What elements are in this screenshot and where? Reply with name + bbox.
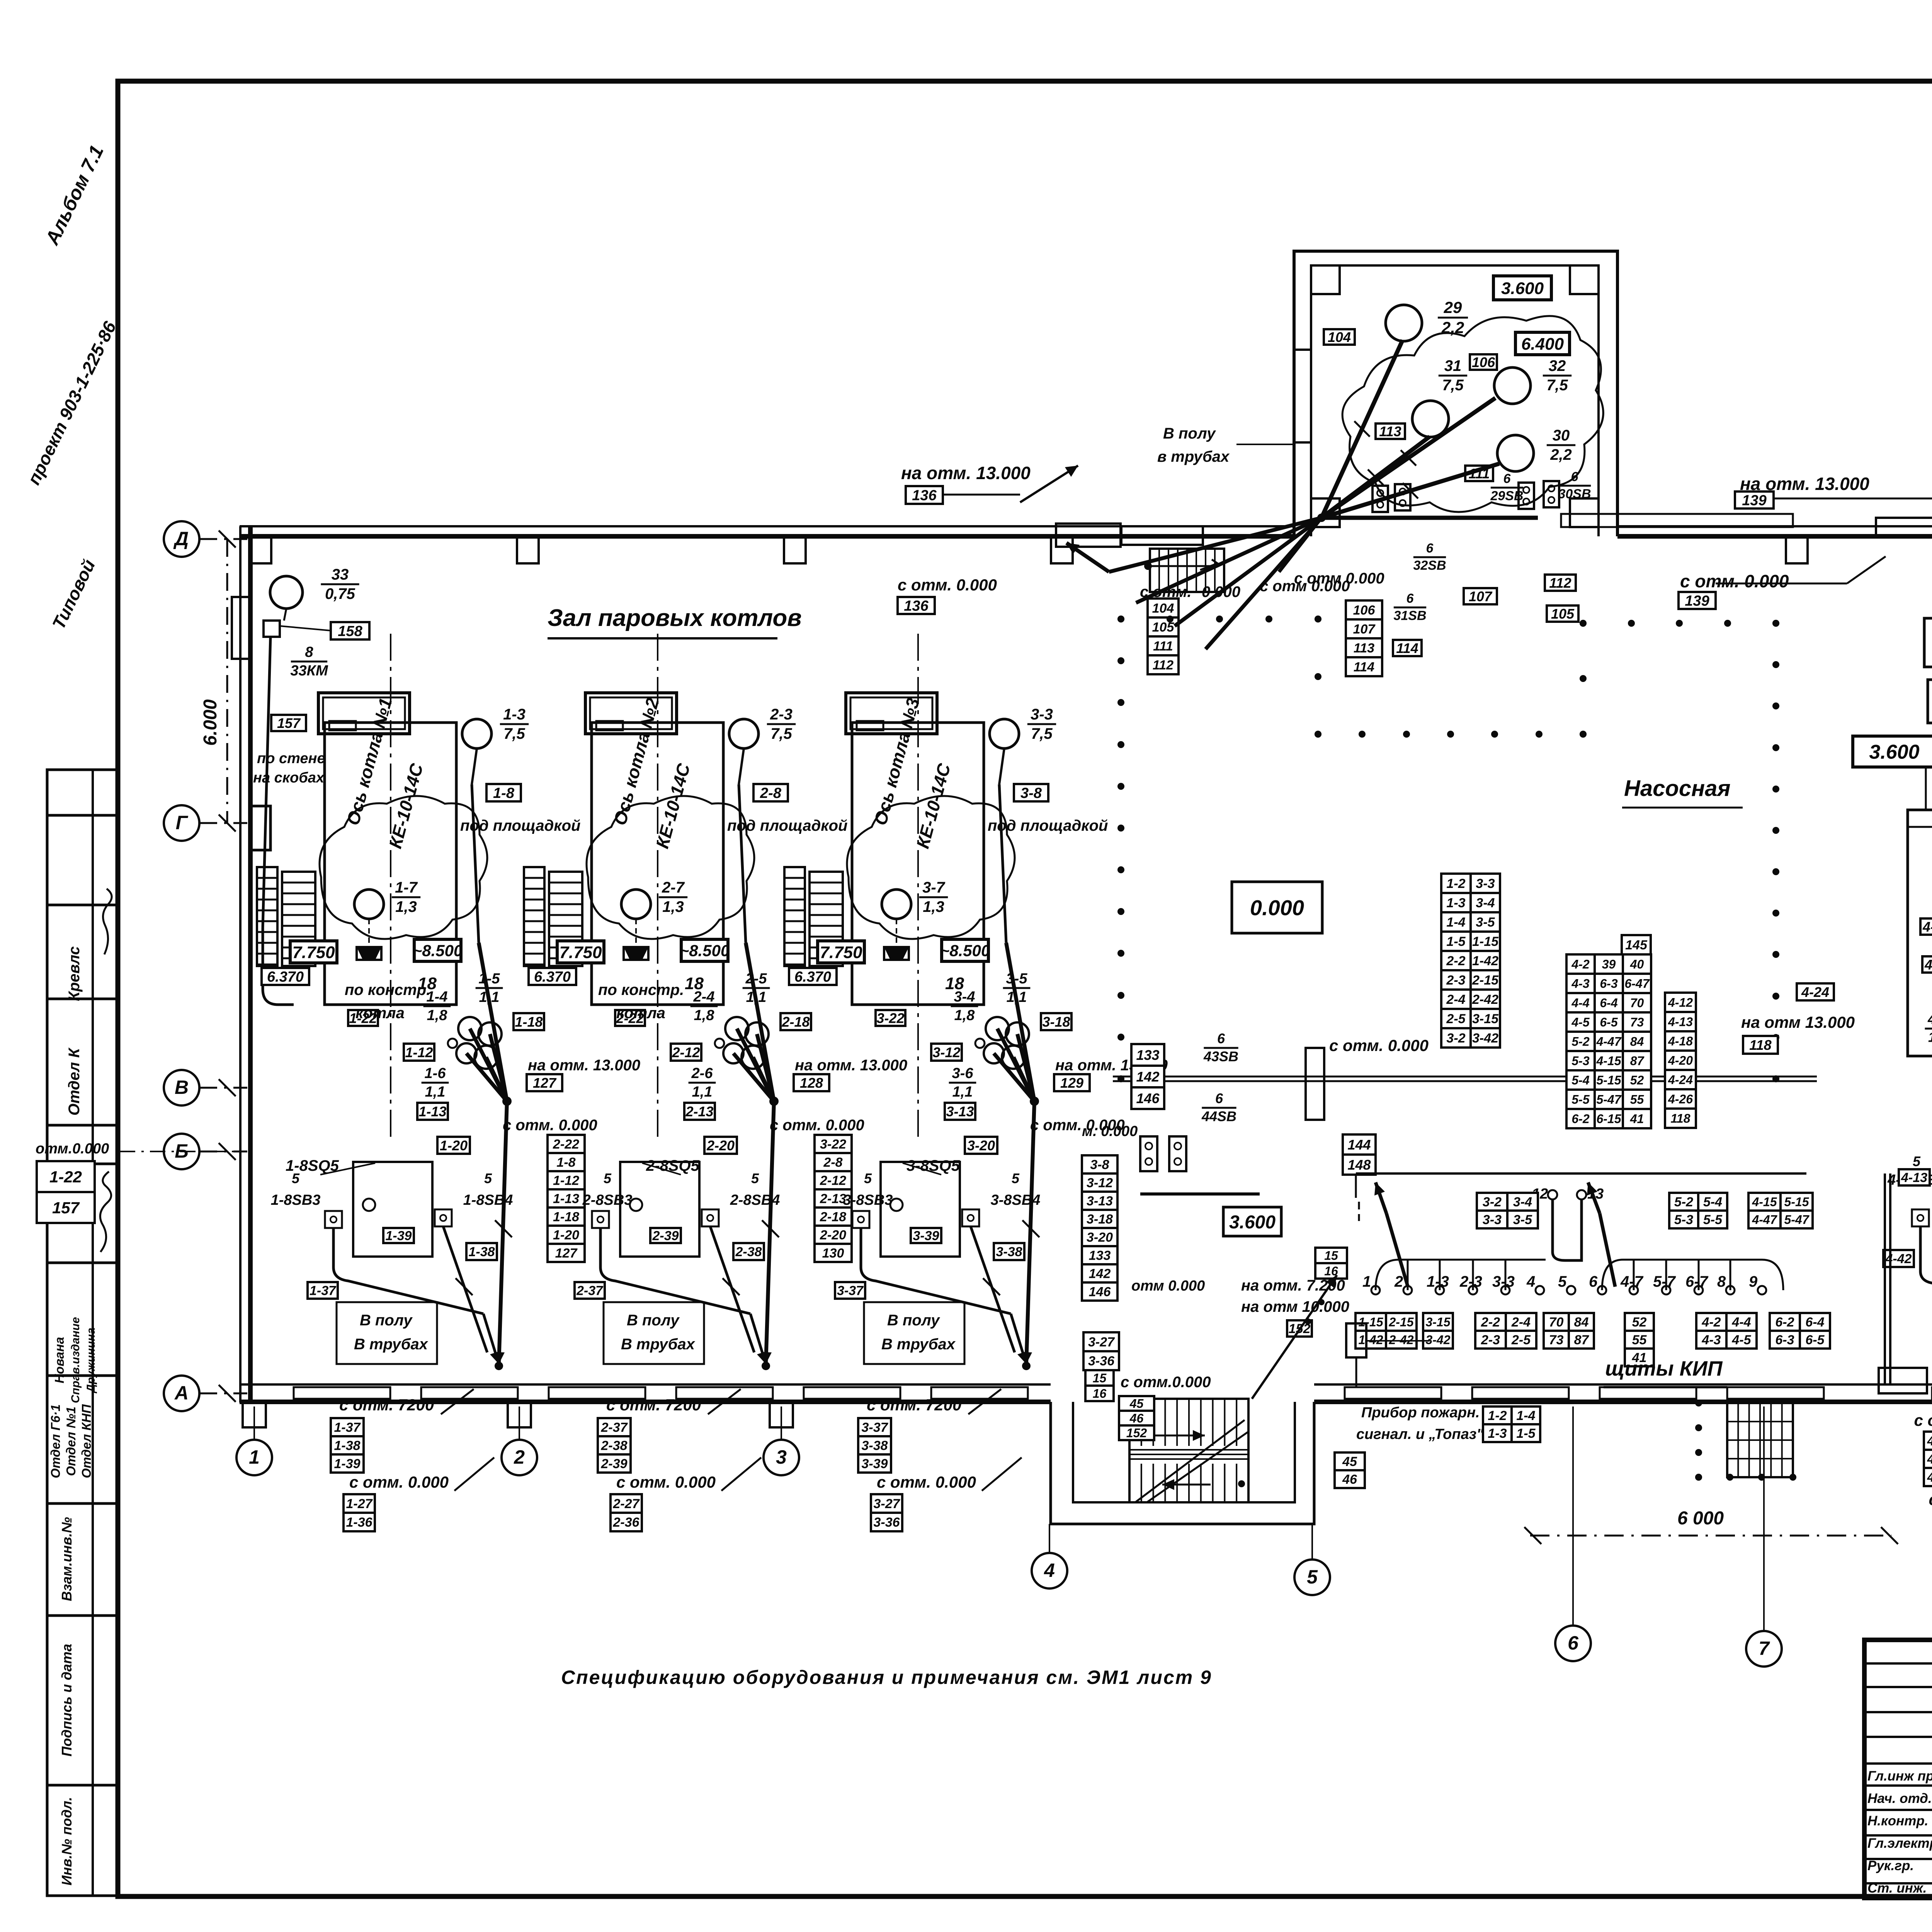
svg-text:107: 107 (1353, 622, 1376, 637)
svg-text:3-22: 3-22 (876, 1010, 904, 1026)
svg-text:5: 5 (1558, 1273, 1567, 1290)
svg-text:45: 45 (1129, 1397, 1144, 1411)
svg-text:3-13: 3-13 (1087, 1194, 1113, 1209)
svg-text:9: 9 (1749, 1273, 1758, 1290)
svg-text:3-7: 3-7 (922, 879, 946, 896)
svg-text:43SВ: 43SВ (1203, 1048, 1238, 1064)
svg-text:Д: Д (173, 528, 189, 549)
svg-text:16: 16 (1093, 1387, 1107, 1401)
svg-text:4-4: 4-4 (1927, 1011, 1932, 1027)
svg-text:с отм. 0.000: с отм. 0.000 (898, 576, 997, 594)
svg-text:В трубах: В трубах (354, 1336, 429, 1353)
svg-text:1,3: 1,3 (395, 898, 417, 915)
svg-text:1,1: 1,1 (952, 1084, 973, 1100)
svg-text:6-2: 6-2 (1775, 1315, 1794, 1330)
svg-text:1-12: 1-12 (405, 1044, 433, 1060)
svg-text:29SВ: 29SВ (1490, 489, 1523, 503)
svg-text:5-5: 5-5 (1571, 1093, 1590, 1107)
svg-text:6-4: 6-4 (1600, 996, 1617, 1010)
svg-text:2-2: 2-2 (1446, 954, 1465, 968)
svg-text:4-4: 4-4 (1731, 1315, 1751, 1330)
svg-text:м. 0.000: м. 0.000 (1082, 1123, 1138, 1139)
svg-text:4-15: 4-15 (1752, 1195, 1777, 1209)
svg-text:по констр.: по констр. (598, 981, 684, 998)
svg-text:7.750: 7.750 (292, 943, 335, 962)
svg-text:1,1: 1,1 (746, 989, 767, 1005)
svg-text:с отм. 7.200: с отм. 7.200 (1914, 1411, 1932, 1429)
svg-text:6: 6 (1215, 1090, 1223, 1106)
svg-text:136: 136 (912, 488, 937, 504)
svg-text:с отм. 0.000: с отм. 0.000 (770, 1117, 864, 1134)
svg-text:6: 6 (1503, 471, 1511, 486)
svg-text:32: 32 (1549, 357, 1566, 374)
svg-text:3-6: 3-6 (952, 1065, 974, 1082)
svg-text:2-22: 2-22 (553, 1137, 579, 1152)
svg-text:4: 4 (1526, 1273, 1535, 1290)
svg-text:33: 33 (332, 566, 349, 583)
svg-text:130: 130 (822, 1246, 844, 1261)
svg-text:52: 52 (1630, 1073, 1644, 1087)
svg-text:4-12: 4-12 (1668, 996, 1693, 1010)
svg-text:1,8: 1,8 (694, 1007, 715, 1024)
svg-text:128: 128 (800, 1075, 823, 1091)
svg-text:2-36: 2-36 (612, 1515, 639, 1530)
svg-text:2-6: 2-6 (691, 1065, 713, 1082)
svg-text:3-37: 3-37 (861, 1420, 888, 1435)
svg-text:3-37: 3-37 (837, 1284, 864, 1298)
svg-text:3: 3 (776, 1446, 787, 1468)
svg-text:Кревлс: Кревлс (66, 946, 83, 1001)
svg-text:4: 4 (1044, 1560, 1055, 1581)
svg-text:30SВ: 30SВ (1558, 487, 1591, 502)
svg-text:8: 8 (1717, 1273, 1726, 1290)
svg-text:на отм. 13.000: на отм. 13.000 (528, 1057, 640, 1074)
svg-text:2-8SВ3: 2-8SВ3 (582, 1192, 633, 1208)
svg-text:В полу: В полу (360, 1312, 413, 1329)
svg-text:3-8: 3-8 (1090, 1158, 1109, 1172)
svg-text:1-5: 1-5 (479, 971, 500, 987)
svg-text:Г: Г (176, 812, 189, 833)
svg-text:6 000: 6 000 (1677, 1508, 1724, 1529)
svg-text:118: 118 (1670, 1112, 1690, 1126)
svg-text:45: 45 (1342, 1454, 1357, 1469)
svg-text:5-47: 5-47 (1596, 1093, 1622, 1107)
svg-text:3-38: 3-38 (996, 1245, 1022, 1259)
svg-text:7: 7 (1759, 1638, 1770, 1659)
svg-text:1-5: 1-5 (1516, 1426, 1536, 1441)
svg-text:144: 144 (1347, 1137, 1371, 1153)
svg-text:7.750: 7.750 (559, 943, 602, 962)
svg-text:1,1: 1,1 (692, 1084, 713, 1100)
svg-text:2-42: 2-42 (1388, 1333, 1413, 1347)
svg-text:55: 55 (1632, 1333, 1647, 1347)
svg-text:2-7: 2-7 (662, 879, 685, 896)
svg-text:2-4: 2-4 (1446, 992, 1465, 1007)
svg-text:2-42: 2-42 (1472, 992, 1498, 1007)
svg-text:1-8: 1-8 (556, 1155, 575, 1170)
svg-text:3-8: 3-8 (1020, 785, 1042, 801)
svg-text:5-2: 5-2 (1571, 1035, 1589, 1049)
svg-text:Н.контр.: Н.контр. (1867, 1813, 1928, 1828)
svg-text:3-20: 3-20 (1087, 1230, 1113, 1245)
svg-text:2-8SВ4: 2-8SВ4 (730, 1192, 780, 1208)
svg-text:30: 30 (1553, 427, 1570, 444)
svg-text:2,2: 2,2 (1550, 446, 1572, 463)
svg-text:2-38: 2-38 (600, 1439, 627, 1453)
svg-text:1: 1 (1362, 1273, 1371, 1290)
svg-text:3-4: 3-4 (1476, 896, 1495, 910)
svg-text:3-2: 3-2 (1446, 1031, 1465, 1046)
svg-text:3-13: 3-13 (946, 1104, 974, 1119)
svg-text:с отм. 0.000: с отм. 0.000 (1680, 571, 1789, 591)
svg-text:114: 114 (1354, 660, 1374, 675)
svg-text:1-38: 1-38 (468, 1245, 495, 1259)
svg-text:с отм. 0.000: с отм. 0.000 (1329, 1036, 1429, 1054)
svg-text:1-12: 1-12 (553, 1173, 579, 1188)
svg-text:2-4: 2-4 (1511, 1315, 1531, 1330)
svg-text:3-39: 3-39 (913, 1229, 939, 1243)
svg-text:Гл.электр: Гл.электр (1867, 1836, 1932, 1851)
svg-text:2-8: 2-8 (760, 785, 782, 801)
svg-text:с отм. 0.000: с отм. 0.000 (616, 1473, 716, 1491)
svg-text:8: 8 (305, 644, 313, 660)
svg-text:3.600: 3.600 (1501, 279, 1544, 298)
svg-text:112: 112 (1153, 658, 1173, 673)
svg-text:2-3: 2-3 (1459, 1273, 1482, 1290)
svg-text:31SВ: 31SВ (1393, 609, 1426, 623)
svg-text:6.370: 6.370 (794, 969, 831, 985)
svg-text:4-43: 4-43 (1927, 1452, 1932, 1467)
svg-text:2-5: 2-5 (1446, 1012, 1466, 1026)
svg-text:1-8: 1-8 (493, 785, 515, 801)
svg-text:3-22: 3-22 (820, 1137, 846, 1152)
svg-text:1-3: 1-3 (1427, 1273, 1449, 1290)
svg-text:114: 114 (1396, 640, 1418, 656)
svg-text:2-3: 2-3 (1446, 973, 1465, 988)
svg-text:127: 127 (533, 1075, 557, 1091)
svg-text:3-4: 3-4 (1513, 1195, 1532, 1209)
svg-text:0.000: 0.000 (1250, 896, 1304, 920)
svg-text:139: 139 (1742, 493, 1766, 509)
svg-text:Отдел КНП: Отдел КНП (79, 1404, 94, 1478)
svg-text:3-3: 3-3 (1483, 1213, 1502, 1227)
svg-text:145: 145 (1625, 938, 1648, 952)
svg-text:4-13: 4-13 (1668, 1015, 1693, 1029)
svg-text:5-7: 5-7 (1653, 1273, 1676, 1290)
svg-text:Взам.инв.№: Взам.инв.№ (59, 1517, 75, 1601)
svg-text:2-20: 2-20 (706, 1138, 735, 1153)
svg-text:2-4: 2-4 (693, 989, 715, 1005)
svg-text:~8.500: ~8.500 (680, 942, 730, 960)
svg-text:2-13: 2-13 (820, 1192, 846, 1206)
svg-text:7,5: 7,5 (770, 725, 792, 742)
svg-text:1-4: 1-4 (1446, 915, 1465, 930)
svg-text:4-26: 4-26 (1668, 1092, 1693, 1106)
svg-text:136: 136 (904, 598, 929, 614)
svg-text:73: 73 (1630, 1015, 1644, 1029)
svg-text:3-42: 3-42 (1472, 1031, 1498, 1046)
svg-text:под площадкой: под площадкой (988, 817, 1108, 834)
svg-text:Спецификацию оборудования: Спецификацию оборудования и примечания с… (561, 1667, 1212, 1688)
svg-text:4-12: 4-12 (1924, 957, 1932, 973)
svg-text:33КМ: 33КМ (290, 663, 328, 679)
svg-text:5-3: 5-3 (1674, 1213, 1693, 1227)
svg-text:2-12: 2-12 (672, 1044, 700, 1060)
svg-text:сигнал. и „Топаз": сигнал. и „Топаз" (1356, 1426, 1484, 1442)
svg-text:В трубах: В трубах (621, 1336, 696, 1353)
svg-text:2-2: 2-2 (1481, 1315, 1500, 1330)
svg-text:32SВ: 32SВ (1413, 558, 1446, 573)
svg-text:3-18: 3-18 (1087, 1212, 1113, 1227)
svg-text:3-5: 3-5 (1006, 971, 1028, 987)
svg-text:3-20: 3-20 (967, 1138, 995, 1153)
svg-text:1-42: 1-42 (1472, 954, 1498, 968)
svg-text:1-2: 1-2 (1488, 1408, 1507, 1423)
svg-text:2-8: 2-8 (823, 1155, 842, 1170)
svg-text:4-42: 4-42 (1927, 1434, 1932, 1449)
svg-text:112: 112 (1549, 575, 1571, 591)
svg-text:5-3: 5-3 (1571, 1054, 1589, 1068)
svg-text:1-20: 1-20 (553, 1228, 579, 1243)
svg-text:3-42: 3-42 (1425, 1333, 1450, 1347)
svg-text:1-4: 1-4 (1516, 1408, 1535, 1423)
svg-text:146: 146 (1089, 1285, 1111, 1299)
svg-text:на отм 10.000: на отм 10.000 (1241, 1298, 1349, 1315)
svg-text:1-8SВ3: 1-8SВ3 (271, 1192, 321, 1208)
svg-text:с отм 0.000: с отм 0.000 (1260, 578, 1350, 595)
svg-text:105: 105 (1551, 606, 1575, 622)
svg-text:70: 70 (1549, 1315, 1564, 1330)
svg-text:2-37: 2-37 (576, 1284, 604, 1298)
svg-text:6: 6 (1217, 1031, 1225, 1046)
svg-text:5: 5 (1913, 1153, 1921, 1169)
svg-text:1-15: 1-15 (1472, 934, 1499, 949)
svg-text:127: 127 (555, 1246, 578, 1261)
svg-text:4-44: 4-44 (1927, 1470, 1932, 1485)
svg-text:5-15: 5-15 (1784, 1195, 1809, 1209)
svg-text:котла: котла (355, 1005, 405, 1022)
svg-text:2-5: 2-5 (1511, 1333, 1531, 1347)
svg-text:4-20: 4-20 (1668, 1054, 1693, 1068)
svg-text:2-39: 2-39 (652, 1229, 679, 1243)
svg-text:1-8SВ4: 1-8SВ4 (463, 1192, 513, 1208)
svg-text:4-4: 4-4 (1571, 996, 1589, 1010)
svg-text:5: 5 (292, 1170, 300, 1186)
svg-text:3-36: 3-36 (873, 1515, 900, 1530)
svg-text:133: 133 (1136, 1047, 1159, 1063)
svg-text:1-37: 1-37 (334, 1420, 361, 1435)
svg-text:7.750: 7.750 (820, 943, 862, 962)
svg-text:Отдел №1: Отдел №1 (64, 1406, 78, 1476)
svg-text:2-12: 2-12 (820, 1173, 846, 1188)
svg-text:6-5: 6-5 (1805, 1333, 1825, 1347)
svg-text:4-5: 4-5 (1571, 1015, 1590, 1029)
svg-text:146: 146 (1136, 1090, 1160, 1106)
svg-text:1-18: 1-18 (515, 1014, 543, 1030)
svg-text:70: 70 (1630, 996, 1644, 1010)
svg-text:73: 73 (1549, 1333, 1564, 1347)
svg-text:157: 157 (52, 1199, 80, 1217)
svg-text:3-3: 3-3 (1492, 1273, 1515, 1290)
svg-text:1-15: 1-15 (1358, 1315, 1383, 1329)
svg-text:1-3: 1-3 (1488, 1426, 1507, 1441)
svg-text:1-22: 1-22 (49, 1168, 82, 1186)
svg-text:на отм. 13.000: на отм. 13.000 (901, 463, 1031, 483)
svg-text:котла: котла (616, 1005, 665, 1022)
svg-text:1-38: 1-38 (334, 1439, 360, 1453)
svg-text:4-47: 4-47 (1752, 1213, 1777, 1227)
svg-text:3.600: 3.600 (1869, 741, 1919, 764)
svg-text:1,3: 1,3 (662, 898, 684, 915)
svg-text:отм.0.000: отм.0.000 (36, 1141, 109, 1157)
svg-text:7,5: 7,5 (1442, 377, 1464, 394)
svg-text:106: 106 (1353, 603, 1376, 618)
svg-text:на отм 13.000: на отм 13.000 (1741, 1013, 1855, 1031)
svg-text:щиты КИП: щиты КИП (1605, 1357, 1723, 1380)
svg-text:с отм. 7200: с отм. 7200 (339, 1396, 434, 1414)
svg-text:52: 52 (1632, 1315, 1647, 1330)
svg-text:1-6: 1-6 (425, 1065, 446, 1082)
svg-text:2-39: 2-39 (600, 1457, 627, 1471)
svg-text:111: 111 (1153, 639, 1173, 654)
svg-text:1,1: 1,1 (425, 1084, 446, 1100)
svg-text:Нач. отд.: Нач. отд. (1867, 1791, 1932, 1806)
svg-text:6-4: 6-4 (1805, 1315, 1824, 1330)
svg-text:3-4: 3-4 (954, 989, 975, 1005)
svg-text:4-42: 4-42 (1885, 1252, 1912, 1266)
svg-text:2-38: 2-38 (735, 1245, 762, 1259)
svg-text:1,1: 1,1 (1007, 989, 1027, 1005)
svg-text:1-3: 1-3 (503, 706, 526, 723)
svg-text:1-18: 1-18 (553, 1210, 579, 1225)
svg-text:5-5: 5-5 (1703, 1213, 1723, 1227)
svg-text:6-15: 6-15 (1596, 1112, 1621, 1126)
svg-text:6: 6 (1568, 1632, 1579, 1654)
svg-text:1-20: 1-20 (440, 1138, 468, 1153)
svg-text:Рук.гр.: Рук.гр. (1867, 1858, 1914, 1873)
svg-text:3-2: 3-2 (1483, 1195, 1502, 1209)
svg-text:2-20: 2-20 (820, 1228, 846, 1243)
svg-text:13: 13 (1587, 1186, 1604, 1202)
svg-text:1-7: 1-7 (395, 879, 418, 896)
svg-text:1,8: 1,8 (427, 1007, 448, 1024)
svg-text:2-15: 2-15 (1388, 1315, 1414, 1329)
svg-text:Насосная: Насосная (1624, 776, 1731, 801)
svg-text:Гл.инж пр.: Гл.инж пр. (1867, 1769, 1932, 1784)
svg-text:5: 5 (1012, 1170, 1020, 1186)
svg-text:1,1: 1,1 (479, 989, 500, 1005)
svg-text:15: 15 (1324, 1249, 1338, 1263)
svg-text:3-38: 3-38 (861, 1439, 888, 1453)
svg-text:1-3: 1-3 (1446, 896, 1465, 910)
svg-text:Зал паровых котлов: Зал паровых котлов (548, 605, 802, 631)
svg-text:6-5: 6-5 (1600, 1015, 1618, 1029)
svg-text:6-47: 6-47 (1624, 977, 1650, 991)
svg-text:129: 129 (1060, 1075, 1083, 1091)
svg-text:2-18: 2-18 (781, 1014, 810, 1030)
svg-text:3-15: 3-15 (1425, 1315, 1451, 1329)
svg-text:1,3: 1,3 (923, 898, 944, 915)
svg-text:152: 152 (1126, 1426, 1147, 1440)
svg-text:1,8: 1,8 (954, 1007, 975, 1024)
svg-text:7,5: 7,5 (1031, 725, 1053, 742)
svg-text:113: 113 (1354, 641, 1374, 656)
svg-text:на отм. 13.000: на отм. 13.000 (795, 1057, 907, 1074)
svg-text:107: 107 (1469, 588, 1493, 604)
svg-text:4-24: 4-24 (1801, 984, 1829, 1000)
svg-text:1-13: 1-13 (553, 1192, 579, 1206)
svg-text:2: 2 (514, 1446, 525, 1468)
svg-text:с отм.0.000: с отм.0.000 (1121, 1374, 1211, 1391)
svg-text:106: 106 (1472, 354, 1495, 370)
svg-text:3-39: 3-39 (861, 1457, 888, 1471)
svg-text:под площадкой: под площадкой (460, 817, 580, 834)
svg-text:3-8SВ3: 3-8SВ3 (843, 1192, 893, 1208)
svg-text:4-24: 4-24 (1668, 1073, 1693, 1087)
svg-text:1-39: 1-39 (385, 1229, 412, 1243)
svg-text:2: 2 (1394, 1273, 1403, 1290)
svg-text:4-5: 4-5 (1731, 1333, 1751, 1347)
svg-text:с отм. 0.000: с отм. 0.000 (877, 1473, 976, 1491)
svg-text:по констр.: по констр. (345, 981, 430, 998)
svg-text:с отм. 7200: с отм. 7200 (606, 1396, 701, 1414)
svg-text:2-27: 2-27 (612, 1497, 640, 1511)
svg-text:5: 5 (751, 1170, 759, 1186)
svg-text:40: 40 (1630, 957, 1644, 971)
svg-text:2-3: 2-3 (1481, 1333, 1500, 1347)
svg-text:4-3: 4-3 (1701, 1333, 1721, 1347)
svg-text:4-2: 4-2 (1571, 957, 1589, 971)
svg-text:В полу: В полу (1163, 425, 1216, 442)
svg-text:5-4: 5-4 (1703, 1195, 1722, 1209)
svg-text:на скобах: на скобах (253, 770, 325, 786)
svg-text:7,5: 7,5 (1546, 377, 1568, 394)
svg-text:118: 118 (1749, 1037, 1771, 1053)
svg-text:~8.500: ~8.500 (940, 942, 990, 960)
svg-text:5-47: 5-47 (1784, 1213, 1810, 1227)
svg-text:46: 46 (1342, 1472, 1357, 1487)
svg-text:0,75: 0,75 (325, 585, 355, 602)
svg-text:3-27: 3-27 (873, 1497, 900, 1511)
svg-text:6-7: 6-7 (1685, 1273, 1709, 1290)
svg-text:5-4: 5-4 (1571, 1073, 1589, 1087)
svg-text:Дружинина: Дружинина (85, 1328, 97, 1394)
svg-text:2-18: 2-18 (820, 1210, 846, 1225)
svg-text:1: 1 (249, 1446, 260, 1468)
svg-text:1-2: 1-2 (1446, 876, 1465, 891)
svg-text:Отдел К: Отдел К (66, 1047, 83, 1116)
svg-text:6-3: 6-3 (1775, 1333, 1794, 1347)
svg-text:157: 157 (277, 715, 301, 731)
svg-text:6: 6 (1426, 541, 1434, 556)
svg-text:4-47: 4-47 (1596, 1035, 1622, 1049)
svg-text:6-3: 6-3 (1600, 977, 1617, 991)
svg-text:6.400: 6.400 (1521, 335, 1564, 354)
svg-text:39: 39 (1602, 957, 1616, 971)
svg-text:5: 5 (604, 1170, 612, 1186)
svg-text:46: 46 (1129, 1412, 1144, 1425)
svg-text:5-2: 5-2 (1674, 1195, 1693, 1209)
svg-text:3-8SВ4: 3-8SВ4 (991, 1192, 1041, 1208)
svg-text:3-18: 3-18 (1042, 1014, 1070, 1030)
svg-text:Ст. инж.: Ст. инж. (1867, 1881, 1927, 1896)
svg-text:44SВ: 44SВ (1201, 1108, 1236, 1124)
svg-text:3-27: 3-27 (1088, 1335, 1115, 1350)
svg-text:87: 87 (1574, 1333, 1590, 1347)
svg-text:отм 0.000: отм 0.000 (1131, 1278, 1205, 1294)
svg-text:1,8: 1,8 (1928, 1029, 1932, 1045)
svg-text:в трубах: в трубах (1157, 448, 1230, 465)
